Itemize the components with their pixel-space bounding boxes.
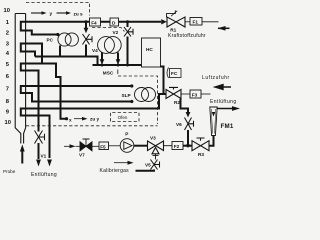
svg-text:V6: V6 [176,122,182,127]
svg-text:HC: HC [146,47,153,52]
dashed oven zone [118,76,158,124]
wire PC drain [59,46,61,57]
regulator R1 [167,10,186,27]
svg-text:2: 2 [6,31,9,37]
wire port7 to SLP top line [29,85,132,87]
arrow vent right [47,158,52,167]
wire y top arrows [31,11,71,15]
sample loop 4 [21,86,29,93]
box F4 [90,18,101,26]
svg-text:R3: R3 [198,152,204,157]
valve V4 [85,22,87,29]
svg-text:F5: F5 [100,144,106,149]
instrument FC [167,68,181,79]
wire oven bus y65 [93,64,142,66]
svg-text:y: y [50,11,53,16]
wire V3 to V5 [153,154,159,160]
svg-text:V4: V4 [92,48,98,53]
valve V5 [151,160,160,170]
svg-text:9: 9 [6,110,10,116]
sample loop 3 [21,64,29,71]
node MSC arrows [100,59,121,65]
svg-text:R2: R2 [174,100,180,105]
valve V3 [148,141,164,154]
svg-text:V2: V2 [113,30,119,35]
valve V6 [185,118,194,131]
box F3 [181,90,211,98]
node PC inlet [56,33,59,36]
svg-text:Entlüftung: Entlüftung [31,172,57,178]
svg-text:MSC: MSC [103,71,114,76]
dashed Ofen label box [111,113,140,122]
node arrow into V6 [186,112,191,118]
wire port3 staircase [29,44,42,64]
wire port8 to SLP bottom line [29,93,132,102]
svg-text:V5: V5 [145,163,151,168]
box D [110,18,119,26]
node V2 tee [126,20,129,23]
wire arrow into R1 [162,20,168,24]
arrow vent left [36,160,41,167]
valve V1 [35,131,45,144]
wire V2 down to oven bus [127,37,129,66]
wire R2 to V6 [181,99,189,114]
arrow cal inlet [64,145,70,147]
node V4 tee [84,20,87,23]
regulator R2 [166,87,181,98]
svg-text:F2: F2 [174,144,180,149]
svg-text:Kalibriergas: Kalibriergas [100,168,130,174]
svg-text:V1: V1 [41,154,47,159]
svg-text:R1: R1 [170,28,176,33]
flowmeter FM1 [210,107,217,136]
wire MSC leg right [117,53,119,63]
svg-text:10: 10 [4,8,10,14]
svg-text:Entlüftung: Entlüftung [210,99,237,105]
wire port2 to PC [29,31,58,35]
svg-text:zu s: zu s [74,12,84,17]
svg-text:FM1: FM1 [221,123,234,130]
svg-text:7: 7 [6,87,9,93]
dashed MSC top mark [92,28,125,32]
svg-text:F3: F3 [192,93,198,98]
port numbers [4,8,11,126]
multiport sampling valve body with funnel outlet [15,14,25,144]
dashed heated zone box [26,3,158,126]
svg-text:10: 10 [5,120,11,126]
wire main carrier bus y21.8 [29,21,161,23]
svg-text:Luftzufuhr: Luftzufuhr [202,75,230,81]
wire HC out down to R2 [160,67,166,95]
wire V6 to junction [187,130,189,146]
wire V4 drain [85,45,87,57]
arrow Entlueftung right [232,106,240,111]
svg-text:P: P [125,132,128,137]
arrow Kalibriergas [114,161,134,165]
pump SLP coil [135,88,156,102]
svg-text:6: 6 [6,74,10,80]
svg-text:3: 3 [6,42,10,48]
wire FM1 vent [217,108,235,110]
svg-text:x: x [69,117,72,122]
svg-text:5: 5 [6,62,10,68]
node x outlet [65,117,68,120]
wire V5 to cal gas [136,170,155,171]
wire x out thin arrow [74,117,88,121]
capillary MSC coil [98,37,122,54]
wire P to V3 [134,145,148,147]
svg-text:FC: FC [171,71,178,76]
regulator R3 [192,138,209,151]
node F2 junction [186,144,190,148]
box F5 [99,142,109,150]
wire row y56.5 PC/V4 drain bus [35,57,98,66]
svg-text:SLP: SLP [122,93,131,98]
svg-text:1: 1 [6,20,10,26]
pump P [120,139,134,153]
svg-text:zu y: zu y [90,117,100,122]
arrow probe in [21,151,23,164]
sample loop 1 [21,22,29,31]
arrow Luftzufuhr [215,85,231,90]
svg-text:Ofen: Ofen [118,115,128,120]
wire port9 oven line to R2 [29,94,166,109]
capillary PC coil [58,33,79,46]
wire MSC leg left [101,53,103,63]
svg-text:Kraftstoffzufuhr: Kraftstoffzufuhr [168,33,206,39]
wire port5 row to x outlet [29,64,66,119]
svg-text:4: 4 [6,51,10,57]
svg-text:Probe: Probe [3,169,16,174]
svg-text:8: 8 [6,99,10,105]
wire V1 vent [38,143,40,159]
valve V2 [127,22,129,27]
svg-text:PC: PC [47,38,54,43]
wire port10 to vent [29,116,50,159]
sample loop 2 [21,44,29,52]
svg-text:F4: F4 [91,21,97,26]
wire V3 to F2 [164,145,173,147]
box HC [142,38,161,67]
wire port6 to valve V1 [29,71,39,132]
arrow Kraftstoffzufuhr in [218,27,230,29]
valve V7 [76,145,81,147]
wire port4 to row56 [29,52,35,57]
sample loop 5 [21,109,29,116]
wire R3 to FM1 [209,136,214,146]
box F2 [172,142,183,150]
svg-text:V3: V3 [150,136,156,141]
box F1 [185,18,219,26]
svg-text:F1: F1 [193,20,199,25]
svg-text:V7: V7 [79,153,85,158]
